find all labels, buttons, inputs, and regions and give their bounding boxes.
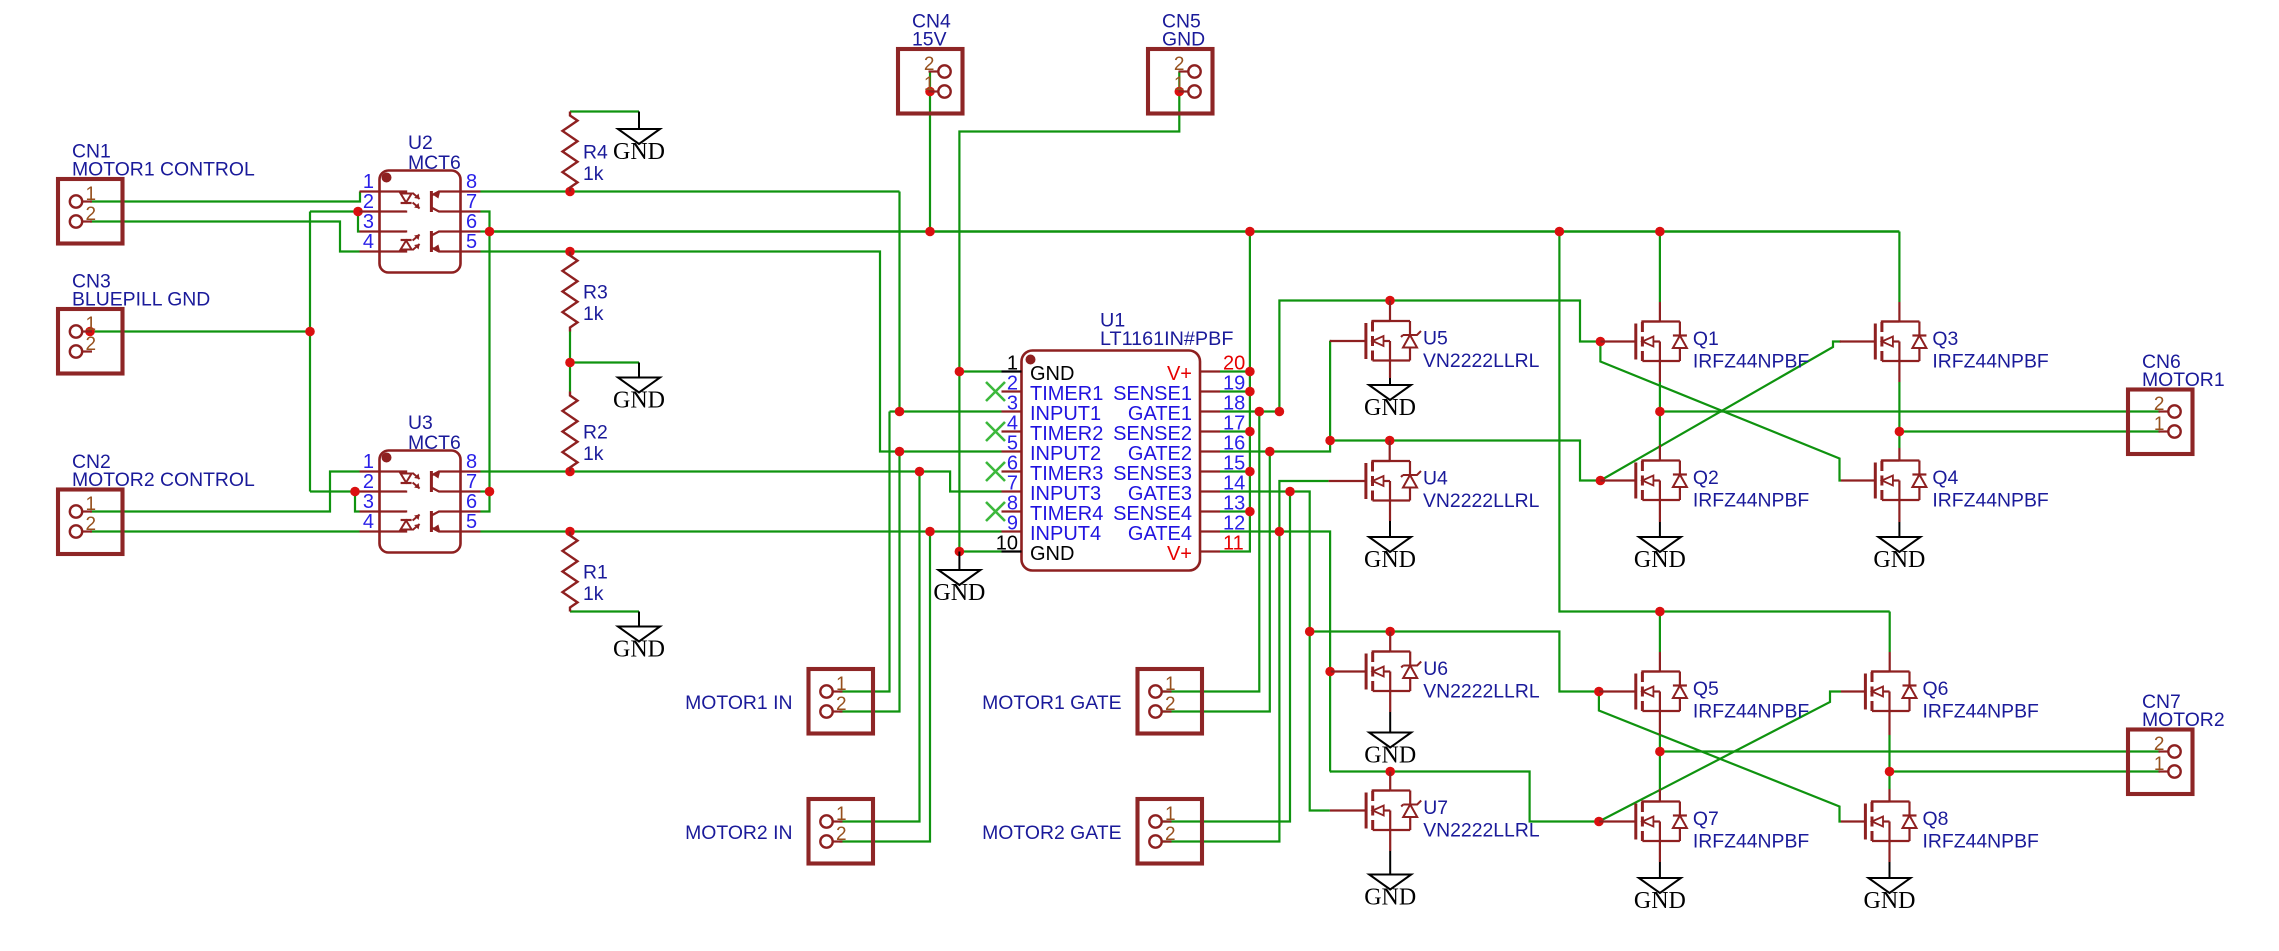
svg-text:3: 3: [363, 491, 374, 513]
pin 7 INPUT3 left: [1002, 473, 1102, 506]
wire MOTOR2 node A row: [1660, 750, 2160, 752]
label BLUEPILL GND: [72, 289, 210, 311]
label R3: [583, 282, 608, 304]
ground U5: [1364, 378, 1416, 421]
svg-text:LT1161IN#PBF: LT1161IN#PBF: [1100, 328, 1233, 350]
ground Q8: [1864, 862, 1916, 914]
transistor Q7: [1599, 802, 1687, 842]
svg-text:2: 2: [1165, 824, 1176, 845]
label IRFZ44NPBF: [1693, 831, 1810, 853]
pin 3 INPUT1 left: [1002, 393, 1102, 426]
svg-text:2: 2: [86, 204, 97, 225]
transistor Q6: [1841, 672, 1917, 712]
label Q3: [1932, 328, 1958, 350]
junction Q2 gate: [1596, 476, 1606, 486]
junction CN3 pin1: [85, 327, 95, 337]
svg-text:MOTOR1 CONTROL: MOTOR1 CONTROL: [72, 159, 255, 181]
wire GATE3 row: [1220, 492, 1330, 811]
svg-text:TIMER3: TIMER3: [1030, 463, 1103, 485]
label U1: [1100, 310, 1125, 332]
svg-text:Q7: Q7: [1693, 808, 1719, 830]
svg-text:Q3: Q3: [1932, 328, 1958, 350]
label VN2222LLRL: [1423, 490, 1540, 512]
junction INPUT3 node: [915, 467, 925, 477]
junction V+ pin19: [1245, 387, 1255, 397]
optocoupler U2: [360, 171, 481, 273]
svg-text:U7: U7: [1423, 797, 1448, 819]
svg-text:18: 18: [1223, 393, 1245, 415]
ground R1: [613, 612, 665, 663]
connector CN1: [58, 179, 123, 244]
junction R2 bottom: [565, 467, 575, 477]
svg-text:MOTOR1 IN: MOTOR1 IN: [685, 692, 792, 714]
resistor R3: [563, 252, 578, 332]
wire U1 pin17 to V+ column: [1220, 430, 1250, 432]
wire INPUT2 to MOTOR1IN.2: [840, 452, 900, 712]
wire Q3 leads: [1898, 302, 1900, 382]
label IRFZ44NPBF: [1932, 351, 2049, 373]
pin 16 GATE2 right: [1128, 433, 1245, 466]
junction GND at U1.1: [955, 367, 965, 377]
no-connect X pin 4: [986, 422, 1005, 441]
label CN4: [912, 11, 951, 33]
svg-text:BLUEPILL GND: BLUEPILL GND: [72, 289, 210, 311]
wire U3.7 stub link: [481, 490, 490, 492]
junction 15V at V+ column: [1245, 227, 1255, 237]
junction U3.7 INPUT3 column: [485, 487, 495, 497]
wire GATE4 to MOTOR2GATE.2: [1162, 532, 1280, 842]
svg-text:TIMER2: TIMER2: [1030, 423, 1103, 445]
label CN6: [2142, 351, 2181, 373]
pin numbers U3: [363, 451, 477, 533]
svg-text:U4: U4: [1423, 468, 1448, 490]
svg-text:2: 2: [86, 514, 97, 535]
wire INPUT4 to MOTOR2IN.2: [840, 532, 931, 842]
svg-text:GATE1: GATE1: [1128, 403, 1192, 425]
wire U2.2 to U2.3 jog: [358, 212, 360, 232]
wire CN5 to U1 GND column: [959, 72, 1179, 552]
label U4: [1423, 468, 1448, 490]
svg-text:GND: GND: [1364, 885, 1416, 911]
wire U3.2 to U3.3 jog: [355, 492, 360, 512]
svg-text:INPUT4: INPUT4: [1030, 523, 1101, 545]
wire U3.2 junction to left: [310, 490, 355, 492]
svg-text:2: 2: [836, 694, 847, 715]
wire Q1 drain: [1659, 232, 1661, 303]
svg-text:MOTOR2 CONTROL: MOTOR2 CONTROL: [72, 469, 255, 491]
svg-text:INPUT3: INPUT3: [1030, 483, 1101, 505]
junction U6 drain: [1385, 627, 1395, 637]
svg-text:MOTOR1 GATE: MOTOR1 GATE: [982, 692, 1121, 714]
svg-text:SENSE1: SENSE1: [1113, 383, 1192, 405]
svg-text:3: 3: [363, 211, 374, 233]
junction Q5 gate: [1594, 687, 1604, 697]
svg-text:GATE3: GATE3: [1128, 483, 1192, 505]
wire U1 pin15 to V+ column: [1220, 470, 1250, 472]
wire 15V drop to lower bridge: [1559, 232, 1889, 612]
svg-text:7: 7: [1007, 473, 1018, 495]
svg-text:R1: R1: [583, 562, 608, 584]
svg-text:GND: GND: [1364, 743, 1416, 769]
label MOTOR1 CONTROL: [72, 159, 255, 181]
wire U4 leads: [1389, 441, 1392, 522]
junction U7 drain: [1385, 767, 1395, 777]
label LT1161IN#PBF: [1100, 328, 1233, 350]
wire Q5 gate diagonal to Q8: [1599, 692, 1841, 822]
junction INPUT1 node: [895, 407, 905, 417]
label Q4: [1932, 467, 1958, 489]
svg-text:1: 1: [86, 494, 97, 515]
junction V+ pin13: [1245, 507, 1255, 517]
transistor Q4: [1841, 461, 1926, 501]
svg-text:8: 8: [466, 171, 477, 193]
label Q2: [1693, 467, 1719, 489]
no-connect X pin 8: [986, 502, 1005, 521]
svg-text:17: 17: [1223, 413, 1245, 435]
svg-text:6: 6: [1007, 453, 1018, 475]
wire Q7 drain: [1659, 752, 1661, 790]
svg-text:VN2222LLRL: VN2222LLRL: [1423, 490, 1540, 512]
wire Q2 drain: [1659, 412, 1661, 446]
wire Q6 leads: [1888, 652, 1890, 735]
svg-text:GND: GND: [1864, 888, 1916, 914]
pin numbers U2: [363, 171, 477, 253]
svg-text:GND: GND: [613, 139, 665, 165]
wire CN4 pins to 15V rail: [929, 72, 931, 232]
svg-text:IRFZ44NPBF: IRFZ44NPBF: [1693, 831, 1810, 853]
wire net U2.8 R4 row: [481, 190, 900, 192]
label U6: [1423, 658, 1448, 680]
wire INPUT1 to MOTOR1IN.1: [840, 412, 890, 692]
ground U7: [1364, 851, 1416, 911]
optocoupler U3: [360, 451, 481, 553]
svg-text:GND: GND: [1364, 395, 1416, 421]
svg-text:5: 5: [1007, 433, 1018, 455]
wire U1 pin20 to V+ column: [1220, 370, 1250, 372]
svg-text:GND: GND: [1162, 29, 1205, 51]
wire Q5 source to node: [1659, 735, 1661, 752]
wire Q8 leads: [1888, 789, 1890, 862]
ground U4: [1364, 521, 1416, 573]
label CN5: [1162, 11, 1201, 33]
svg-text:IRFZ44NPBF: IRFZ44NPBF: [1693, 351, 1810, 373]
ground R4: [613, 112, 665, 166]
svg-text:Q1: Q1: [1693, 328, 1719, 350]
svg-text:SENSE2: SENSE2: [1113, 423, 1192, 445]
wire Q6 drain: [1889, 612, 1891, 653]
pin 13 SENSE4 right: [1113, 493, 1245, 526]
wire MOTOR1 node B row: [1899, 430, 2160, 432]
connector MOTOR1 IN: [809, 669, 874, 734]
wire Q4 drain: [1898, 432, 1900, 449]
label U2: [408, 132, 433, 154]
label 1k: [583, 443, 604, 465]
svg-text:GND: GND: [933, 580, 985, 606]
svg-text:Q2: Q2: [1693, 467, 1719, 489]
svg-text:GND: GND: [613, 388, 665, 414]
wire U3.2 stub link: [355, 490, 360, 492]
pin 11 V+ right: [1167, 533, 1244, 566]
junction 15V lower feed: [1555, 227, 1565, 237]
svg-text:MOTOR1: MOTOR1: [2142, 369, 2225, 391]
connector CN3: [58, 309, 123, 374]
resistor R4: [563, 112, 578, 192]
wire BLUEPILL GND vertical: [309, 212, 311, 492]
wire CN3.1 to BLUEPILL GND node: [90, 330, 310, 332]
svg-text:1: 1: [86, 314, 97, 335]
svg-text:1: 1: [924, 74, 935, 95]
junction BLUEPILL GND at CN3 row: [305, 327, 315, 337]
label R2: [583, 422, 608, 444]
wire Q7 gate diagonal to Q6: [1599, 692, 1841, 822]
svg-text:1: 1: [1165, 674, 1176, 695]
wire GATE2 to MOTOR1GATE.2: [1162, 452, 1270, 712]
no-connect X pin 2: [986, 382, 1005, 401]
svg-text:Q6: Q6: [1923, 678, 1949, 700]
svg-text:2: 2: [2154, 734, 2165, 755]
no-connect X pin 6: [986, 462, 1005, 481]
junction V+ pin20: [1245, 367, 1255, 377]
svg-text:1: 1: [836, 674, 847, 695]
svg-text:12: 12: [1223, 513, 1245, 535]
wire Q8 drain: [1888, 772, 1890, 790]
label MOTOR2 CONTROL: [72, 469, 255, 491]
junction 15V at CN4 column: [925, 227, 935, 237]
svg-text:2: 2: [1007, 373, 1018, 395]
pin 20 V+ right: [1167, 353, 1245, 386]
junction MOTOR1 node B: [1895, 427, 1905, 437]
ground Q7: [1634, 862, 1686, 914]
svg-text:16: 16: [1223, 433, 1245, 455]
label MCT6: [408, 152, 461, 174]
svg-text:1k: 1k: [583, 583, 604, 605]
junction U4 drain: [1385, 436, 1395, 446]
junction U3 pin2: [350, 487, 360, 497]
wire Q1 drain lead: [1659, 302, 1661, 382]
svg-text:4: 4: [1007, 413, 1018, 435]
wire Q2 leads: [1659, 445, 1661, 522]
junction R3 GND tee: [565, 358, 575, 368]
wire U4 gate branch: [1279, 481, 1328, 532]
junction GND at U1.10: [955, 547, 965, 557]
wire Q3 drain: [1898, 232, 1900, 303]
junction Q7 gate: [1594, 817, 1604, 827]
svg-text:8: 8: [466, 451, 477, 473]
label MOTOR1: [2142, 369, 2225, 391]
wire Q7 leads: [1659, 789, 1661, 862]
wire U1 pin19 to V+ column: [1220, 390, 1250, 392]
transistor U5: [1330, 321, 1421, 361]
svg-text:IRFZ44NPBF: IRFZ44NPBF: [1693, 490, 1810, 512]
label CN3: [72, 271, 111, 293]
label U5: [1423, 328, 1448, 350]
junction GATE1 motorgate tap: [1255, 407, 1265, 417]
svg-text:INPUT1: INPUT1: [1030, 403, 1101, 425]
svg-text:IRFZ44NPBF: IRFZ44NPBF: [1932, 351, 2049, 373]
resistor R2: [563, 392, 578, 472]
junction Q1 gate: [1596, 337, 1606, 347]
wire CN1.2 to U2.4: [90, 222, 360, 252]
svg-text:GND: GND: [1030, 363, 1074, 385]
wire U1 pin13 to V+ column: [1220, 510, 1250, 512]
transistor Q2: [1600, 461, 1687, 501]
svg-text:10: 10: [996, 533, 1018, 555]
wire GND to U1.10: [959, 550, 1001, 552]
wire U3.5 R1 INPUT4 row: [481, 530, 1002, 532]
svg-text:14: 14: [1223, 473, 1245, 495]
connector CN5: [1148, 49, 1213, 114]
connector CN4: [898, 49, 963, 114]
svg-text:4: 4: [363, 511, 374, 533]
svg-text:R2: R2: [583, 422, 608, 444]
pin 19 SENSE1 right: [1113, 373, 1245, 406]
svg-text:MCT6: MCT6: [408, 152, 461, 174]
svg-text:VN2222LLRL: VN2222LLRL: [1423, 681, 1540, 703]
wire GATE1 row: [1220, 410, 1279, 412]
label IRFZ44NPBF: [1693, 351, 1810, 373]
junction GATE2 U5 gate tap: [1325, 436, 1335, 446]
pin 14 GATE3 right: [1128, 473, 1245, 506]
label MCT6: [408, 432, 461, 454]
svg-text:1: 1: [1165, 804, 1176, 825]
svg-text:GND: GND: [1634, 547, 1686, 573]
wire U2.6 stub link: [481, 230, 490, 232]
wire U6 leads: [1389, 632, 1391, 713]
label MOTOR1 IN: [685, 692, 792, 714]
junction GATE4 motorgate tap: [1275, 527, 1285, 537]
junction MOTOR2 node A: [1655, 747, 1665, 757]
svg-text:5: 5: [466, 231, 477, 253]
wire INPUT3 to MOTOR2IN.1: [840, 472, 920, 822]
wire GND to U1.1: [959, 370, 1001, 372]
svg-text:19: 19: [1223, 373, 1245, 395]
label MOTOR2 IN: [685, 822, 792, 844]
svg-text:IRFZ44NPBF: IRFZ44NPBF: [1693, 701, 1810, 723]
label R1: [583, 562, 608, 584]
svg-text:MOTOR2 IN: MOTOR2 IN: [685, 822, 792, 844]
label R4: [583, 142, 608, 164]
svg-text:GND: GND: [1873, 547, 1925, 573]
label MOTOR2 GATE: [982, 822, 1121, 844]
svg-text:1: 1: [1007, 353, 1018, 375]
wire GATE2 row: [1220, 441, 1600, 481]
svg-text:4: 4: [363, 231, 374, 253]
svg-text:IRFZ44NPBF: IRFZ44NPBF: [1923, 831, 2040, 853]
label VN2222LLRL: [1423, 820, 1540, 842]
wire Q5 drain: [1659, 612, 1661, 653]
label IRFZ44NPBF: [1923, 831, 2040, 853]
wire U2.7 jog down: [481, 212, 490, 512]
junction R4 bottom: [565, 187, 575, 197]
label IRFZ44NPBF: [1693, 701, 1810, 723]
label IRFZ44NPBF: [1923, 701, 2040, 723]
wire U7 leads: [1389, 772, 1391, 852]
svg-text:2: 2: [1174, 54, 1185, 75]
svg-text:11: 11: [1223, 533, 1244, 555]
svg-text:R4: R4: [583, 142, 608, 164]
junction GATE2 motorgate tap: [1265, 447, 1275, 457]
junction Q5 drain 15V: [1655, 607, 1665, 617]
svg-text:1: 1: [2154, 754, 2165, 775]
pin 12 GATE4 right: [1128, 513, 1245, 546]
svg-text:MCT6: MCT6: [408, 432, 461, 454]
svg-text:7: 7: [466, 471, 477, 493]
svg-text:6: 6: [466, 211, 477, 233]
ground Q2: [1634, 522, 1686, 573]
junction U2 pin2: [353, 207, 363, 217]
wire 15V rail: [490, 230, 1900, 232]
connector CN7: [2128, 730, 2193, 795]
pin 4 TIMER2 left: [1002, 413, 1104, 446]
wire CN2.2 to U3.4: [90, 530, 360, 532]
wire GATE1 to MOTOR1GATE.1: [1162, 412, 1260, 692]
label Q7: [1693, 808, 1719, 830]
wire U2.2 junction to left: [310, 210, 358, 212]
label VN2222LLRL: [1423, 350, 1540, 372]
label CN2: [72, 451, 111, 473]
connector CN6: [2128, 390, 2193, 455]
junction R1 top: [565, 527, 575, 537]
junction R3 top: [565, 247, 575, 257]
pin 1 GND left: [1002, 353, 1075, 386]
svg-text:U2: U2: [408, 132, 433, 154]
connector MOTOR1 GATE: [1138, 669, 1203, 734]
wire GATE4 row: [1220, 532, 1330, 772]
junction U2.6 15V: [485, 227, 495, 237]
svg-text:1: 1: [1174, 74, 1185, 95]
svg-text:U6: U6: [1423, 658, 1448, 680]
svg-text:1: 1: [2154, 414, 2165, 435]
wire GATE3 to MOTOR2GATE.1: [1162, 492, 1291, 822]
wire GATE1 feed up: [1279, 301, 1600, 412]
svg-text:V+: V+: [1167, 543, 1192, 565]
junction V+ pin15: [1245, 467, 1255, 477]
label IRFZ44NPBF: [1693, 490, 1810, 512]
transistor Q8: [1841, 802, 1917, 842]
junction GATE3 feed tap: [1305, 627, 1315, 637]
junction Q1 drain 15V: [1655, 227, 1665, 237]
wire MOTOR2 node B row: [1890, 770, 2161, 772]
connector MOTOR2 GATE: [1138, 799, 1203, 864]
connector CN2: [58, 490, 123, 555]
transistor U7: [1330, 791, 1421, 831]
svg-text:Q5: Q5: [1693, 678, 1719, 700]
pin 17 SENSE2 right: [1113, 413, 1245, 446]
wire MOTOR1 node A row: [1660, 410, 2160, 412]
transistor Q1: [1600, 322, 1687, 362]
label CN7: [2142, 691, 2181, 713]
svg-text:U5: U5: [1423, 328, 1448, 350]
wire U3.8 R2 INPUT3 row: [481, 472, 1002, 492]
wire GATE4 feed row: [1330, 772, 1599, 822]
ground U6: [1364, 712, 1416, 769]
junction U5 drain: [1385, 296, 1395, 306]
svg-text:Q4: Q4: [1932, 467, 1958, 489]
svg-text:6: 6: [466, 491, 477, 513]
svg-text:1: 1: [836, 804, 847, 825]
svg-text:1: 1: [363, 451, 374, 473]
label VN2222LLRL: [1423, 681, 1540, 703]
wire R3 bottom link: [569, 332, 571, 392]
pin 18 GATE1 right: [1128, 393, 1245, 426]
svg-text:MOTOR2: MOTOR2: [2142, 709, 2225, 731]
wire Q4 leads: [1898, 448, 1900, 522]
svg-text:2: 2: [363, 471, 374, 493]
svg-text:5: 5: [466, 511, 477, 533]
wire Q6 source to node: [1888, 735, 1890, 772]
wire CN2.1 to U3.1: [90, 472, 360, 512]
label 15V: [912, 29, 947, 51]
